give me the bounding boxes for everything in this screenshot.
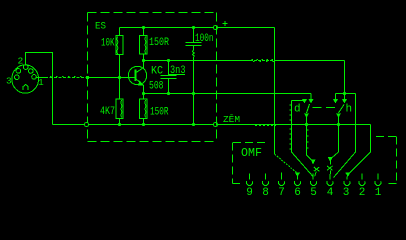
svg-text:150R: 150R (150, 105, 169, 118)
svg-text:1: 1 (38, 77, 44, 88)
svg-text:OMF: OMF (241, 147, 262, 160)
svg-text:1: 1 (375, 187, 382, 199)
svg-text:4: 4 (327, 187, 334, 199)
svg-text:3: 3 (6, 76, 12, 87)
svg-text:5: 5 (310, 187, 317, 199)
svg-text:h: h (346, 104, 353, 116)
svg-text:d: d (294, 104, 301, 116)
svg-text:3: 3 (343, 187, 350, 199)
svg-text:100n: 100n (195, 32, 213, 45)
svg-text:6: 6 (294, 187, 301, 199)
svg-text:10K: 10K (101, 36, 115, 49)
svg-text:ES: ES (95, 20, 106, 31)
svg-text:KC: KC (151, 65, 163, 78)
svg-text:2: 2 (18, 56, 24, 67)
svg-text:ZĒM: ZĒM (223, 114, 240, 125)
svg-text:9: 9 (246, 187, 253, 199)
svg-text:8: 8 (262, 187, 269, 199)
svg-text:2: 2 (359, 187, 366, 199)
svg-text:3n3: 3n3 (170, 64, 186, 76)
svg-text:7: 7 (278, 187, 285, 199)
svg-text:508: 508 (149, 79, 164, 92)
svg-text:4K7: 4K7 (100, 105, 115, 117)
svg-text:150R: 150R (149, 36, 169, 48)
